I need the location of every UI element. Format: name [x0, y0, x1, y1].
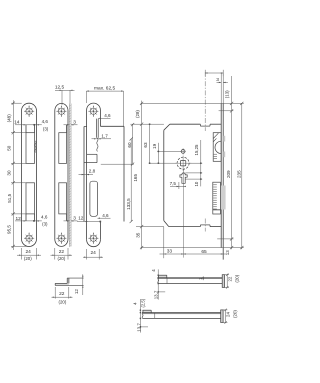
- svg-text:24: 24: [26, 249, 32, 255]
- svg-text:12: 12: [78, 216, 84, 221]
- svg-text:10: 10: [194, 181, 199, 186]
- svg-text:7,5: 7,5: [170, 181, 177, 186]
- svg-text:33: 33: [167, 249, 173, 255]
- svg-text:12: 12: [74, 289, 79, 295]
- svg-text:(20): (20): [57, 256, 65, 261]
- svg-text:12,5: 12,5: [55, 85, 65, 91]
- svg-text:65: 65: [201, 249, 207, 255]
- svg-text:4,6: 4,6: [41, 215, 48, 220]
- svg-text:(28): (28): [135, 110, 140, 118]
- svg-text:35: 35: [135, 232, 140, 238]
- svg-text:15,25: 15,25: [194, 144, 199, 156]
- svg-text:(20): (20): [232, 310, 237, 318]
- svg-text:24: 24: [91, 250, 97, 256]
- svg-text:209: 209: [226, 170, 231, 178]
- svg-text:(13): (13): [224, 90, 229, 98]
- svg-text:(3): (3): [43, 126, 49, 131]
- svg-text:(48): (48): [7, 114, 12, 123]
- svg-text:19: 19: [152, 143, 157, 149]
- svg-text:4,6: 4,6: [42, 119, 49, 124]
- svg-text:235: 235: [236, 170, 241, 178]
- svg-text:95,5: 95,5: [6, 225, 11, 234]
- svg-text:14: 14: [14, 120, 20, 126]
- svg-text:51,5: 51,5: [7, 193, 12, 202]
- svg-text:3: 3: [73, 215, 76, 221]
- svg-text:13: 13: [225, 250, 230, 255]
- svg-text:50: 50: [7, 145, 12, 151]
- svg-text:22: 22: [59, 249, 65, 255]
- svg-text:63: 63: [143, 142, 148, 148]
- svg-text:(20): (20): [58, 300, 66, 305]
- svg-text:4,6: 4,6: [104, 113, 111, 118]
- svg-text:4,6: 4,6: [102, 213, 109, 218]
- svg-text:13,7: 13,7: [137, 323, 142, 332]
- svg-text:1,7: 1,7: [101, 133, 108, 138]
- svg-text:12: 12: [16, 216, 22, 222]
- svg-text:22: 22: [227, 276, 232, 281]
- svg-text:165: 165: [133, 174, 138, 182]
- svg-text:3: 3: [73, 119, 76, 125]
- svg-text:(20): (20): [24, 256, 32, 261]
- svg-text:24: 24: [225, 312, 230, 317]
- svg-text:2,8: 2,8: [89, 168, 96, 173]
- svg-text:(3): (3): [42, 222, 48, 227]
- svg-text:(2,5): (2,5): [141, 298, 146, 307]
- svg-text:(20): (20): [234, 274, 239, 282]
- svg-text:30: 30: [7, 170, 12, 176]
- svg-text:3: 3: [216, 77, 219, 83]
- svg-text:133,5: 133,5: [126, 198, 131, 210]
- svg-text:22: 22: [59, 291, 65, 297]
- svg-text:13,7: 13,7: [153, 290, 158, 299]
- svg-text:max. 62,5: max. 62,5: [94, 85, 115, 91]
